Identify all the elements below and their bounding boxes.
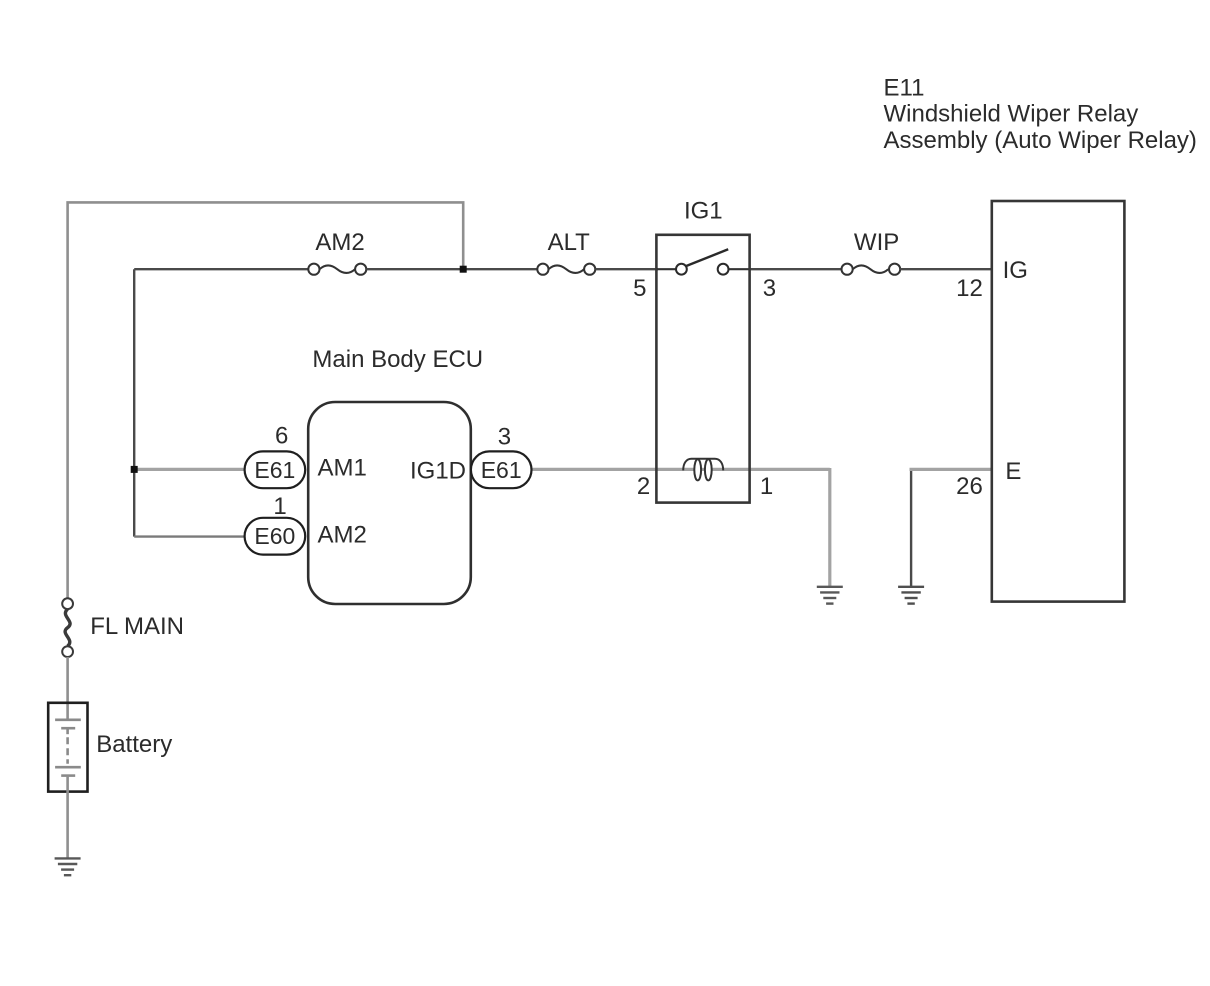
svg-text:E11: E11 [884,74,925,101]
svg-text:E: E [1005,458,1021,485]
wire AM2 branch vertical (x=134) [133,269,135,536]
battery internal plates [55,720,81,776]
wire E61 branch to Main Body ECU pin AM1 [134,468,246,471]
E11 Windshield Wiper Relay box [992,201,1125,602]
svg-text:IG1: IG1 [684,197,723,224]
svg-text:3: 3 [763,275,776,302]
svg-text:1: 1 [273,493,286,520]
svg-text:3: 3 [498,424,511,451]
svg-text:6: 6 [275,423,288,450]
svg-text:E61: E61 [481,457,522,483]
fuse ALT [537,264,595,275]
fusible link FL MAIN [62,598,73,657]
svg-text:2: 2 [637,473,650,500]
wire WIP fuse to E11 pin 12 [900,268,992,270]
ground (battery) [55,858,81,875]
ground (E11 E pin) [898,587,924,604]
svg-text:E61: E61 [254,457,295,483]
wire E60 branch to Main Body ECU pin AM2 [134,535,246,537]
wire E11 pin E to ground (vertical) [910,469,912,586]
Main Body ECU box [308,402,471,604]
ground (coil return) [817,587,843,604]
coil IG1 (relay coil symbol) [683,459,723,481]
svg-text:AM1: AM1 [318,454,367,481]
svg-text:FL MAIN: FL MAIN [90,613,184,640]
wire IG1 pin3 to WIP fuse [750,268,842,270]
connector E61 (pin 3 / IG1D) [471,451,532,488]
wire AM2 horizontal to fuse [134,268,308,270]
connector E60 (pin 1 / AM2) [245,518,306,555]
wire AM2 fuse to ALT fuse (through junction) [366,268,537,270]
wire FL MAIN to battery [66,657,69,720]
switch IG1 contacts and blade [676,249,728,274]
wire E11 pin E horizontal [910,468,992,471]
connector E61 (pin 6 / AM1) [245,451,306,488]
svg-text:E60: E60 [254,523,295,549]
fuse AM2 [308,264,366,275]
fuse WIP [842,264,901,275]
svg-text:26: 26 [956,473,983,500]
wire coil pin1 to ground drop [828,468,831,587]
svg-text:AM2: AM2 [318,521,367,548]
svg-text:AM2: AM2 [315,229,364,256]
node junction at AM2/ALT wire [460,266,467,273]
wire battery positive loop (left vertical, top horizontal, drop to AM2 node) [68,202,464,598]
svg-text:5: 5 [633,275,646,302]
wire battery negative to ground [66,776,69,859]
svg-text:ALT: ALT [548,229,591,256]
wire ALT fuse to IG1 box [595,268,658,270]
node junction at AM1 branch [131,466,138,473]
svg-text:Battery: Battery [96,731,172,758]
svg-text:Assembly (Auto Wiper Relay): Assembly (Auto Wiper Relay) [884,127,1197,154]
svg-text:WIP: WIP [854,229,899,256]
svg-text:IG1D: IG1D [410,458,466,485]
svg-text:Main Body ECU: Main Body ECU [312,346,483,373]
IG1 relay box [656,235,749,503]
svg-text:IG: IG [1003,257,1028,284]
svg-text:Windshield Wiper Relay: Windshield Wiper Relay [884,101,1139,128]
battery box [48,703,87,792]
svg-text:1: 1 [760,473,773,500]
svg-text:12: 12 [956,275,983,302]
switch IG1 internal wires [656,268,676,270]
wire IG1D output to IG1 coil pin 2 [532,468,830,471]
